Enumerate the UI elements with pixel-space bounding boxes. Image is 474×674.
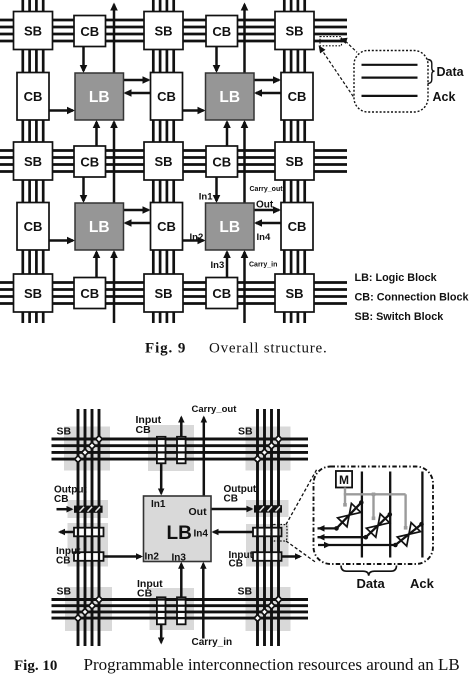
- wire In2 arrow into LB row4 col2: [49, 237, 75, 245]
- output CB hatched bar right: [254, 505, 282, 512]
- connection box ladder bottom-left (to lower LB In1): [157, 597, 166, 624]
- svg-text:SB: SB: [24, 23, 42, 38]
- wire In2 arrow from left input CB into LB: [104, 553, 144, 560]
- svg-text:LB: LB: [167, 523, 192, 544]
- wire data line 2 in fig9 inset: [362, 76, 418, 78]
- switch point diamonds top-right SB: [253, 434, 283, 463]
- svg-text:Carry_in: Carry_in: [192, 637, 233, 648]
- shade left input CB region: [68, 523, 109, 567]
- svg-text:CB: CB: [80, 286, 99, 301]
- svg-text:CB: CB: [224, 494, 238, 505]
- svg-text:CB: CB: [137, 588, 153, 600]
- logic block LB row2 col4: [206, 73, 255, 120]
- wire carry chain column 4 middle segment: [241, 120, 249, 203]
- wire Carry_in arrow into LB bottom: [200, 562, 207, 639]
- pass transistor switch 1 (inset): [338, 503, 361, 526]
- wire In4 arrow into LB row2 col2: [124, 89, 151, 97]
- svg-text:Fig. 9: Fig. 9: [145, 341, 186, 357]
- pass transistor switch 3 (inset): [397, 523, 420, 546]
- connection block CB row1 col4: [206, 16, 238, 47]
- shade bottom-right SB region: [246, 587, 291, 631]
- svg-text:SB: SB: [154, 154, 172, 169]
- svg-text:LB: LB: [219, 89, 240, 106]
- shade right output CB region: [246, 500, 289, 517]
- wire vertical data line 2 (inset): [389, 472, 391, 558]
- svg-text:CB: CB: [24, 219, 43, 234]
- wire In1 arrow into LB row2 col4: [213, 47, 221, 74]
- label Input CB top: [136, 414, 162, 436]
- switch block SB row1 col3: [275, 12, 314, 50]
- svg-text:Carry_out: Carry_out: [192, 404, 238, 415]
- connection block CB row2 col5: [281, 73, 313, 121]
- wire carry chain column 4 top segment with up arrow: [241, 3, 249, 74]
- wire horizontal routing bus row 3: [0, 283, 347, 304]
- switch point diamonds top-left SB: [73, 434, 103, 463]
- wire input 3 with right arrow (inset): [318, 522, 424, 548]
- wire vertical ack line (inset): [421, 472, 423, 558]
- svg-text:CB: CB: [229, 559, 243, 570]
- connection box ladder left (In2 source): [74, 552, 104, 561]
- connection block CB row4 col5: [281, 203, 313, 251]
- svg-text:SB: SB: [154, 286, 172, 301]
- wire carry chain column 2 top segment with up arrow: [110, 3, 118, 74]
- wire In3 arrow into LB row2 col2: [93, 120, 101, 146]
- wire carry chain column 2 bottom segment: [110, 250, 118, 323]
- wire right vertical bus (fig10): [258, 409, 279, 646]
- connection block CB row3 col2: [74, 146, 106, 177]
- svg-text:In1: In1: [199, 192, 213, 203]
- wire In4 arrow into LB row4 col4: [254, 219, 281, 227]
- label Output CB right: [224, 484, 257, 505]
- wire In1 arrow into LB row2 col2: [80, 47, 88, 74]
- memory cell box M: [336, 471, 352, 488]
- switch block SB row2 col3: [275, 142, 314, 180]
- label Input CB right: [229, 550, 254, 570]
- callout dotted rectangle on bus wires: [320, 37, 342, 46]
- wire vertical routing bus column 1: [23, 0, 43, 323]
- connection block CB row3 col4: [206, 146, 238, 177]
- inset rounded box (fig9 wire detail): [354, 51, 428, 113]
- svg-text:CB: CB: [56, 556, 70, 567]
- switch block SB row3 col3: [275, 274, 314, 312]
- svg-text:In1: In1: [151, 499, 166, 510]
- svg-text:SB: SB: [24, 286, 42, 301]
- switch block SB row1 col1: [14, 12, 53, 50]
- caption Fig. 10 Programmable interconnection resources around an LB: [14, 655, 460, 674]
- wire carry chain column 4 bottom segment: [241, 250, 249, 323]
- svg-text:SB: SB: [238, 426, 253, 438]
- wire arrow down from bottom input CB to lower LB: [158, 624, 165, 644]
- svg-text:Ack: Ack: [433, 90, 456, 104]
- logic block LB row4 col2: [75, 203, 124, 250]
- connection block CB row4 col3: [151, 203, 183, 251]
- wire In3 arrow from bottom input CB into LB: [178, 562, 185, 598]
- wire horizontal routing bus row 2: [0, 151, 347, 172]
- label Input CB left: [56, 546, 81, 567]
- callout dashed leader line lower with arrowhead: [319, 45, 361, 108]
- shade top input CB region: [148, 425, 194, 471]
- switch block SB row2 col2: [144, 142, 183, 180]
- svg-text:CB: CB: [24, 89, 43, 104]
- switch block SB row3 col1: [14, 274, 53, 312]
- svg-text:In3: In3: [211, 260, 225, 271]
- svg-text:LB: LB: [219, 219, 240, 236]
- wire In2 arrow into LB row4 col4: [183, 237, 206, 245]
- shade bottom input CB region: [150, 588, 195, 630]
- switch point diamonds bottom-right SB: [253, 595, 283, 623]
- wire top horizontal bus (fig10): [52, 439, 309, 459]
- connection block CB row5 col4: [206, 278, 238, 309]
- callout dotted rect on right input CB: [271, 525, 287, 542]
- svg-text:Overall structure.: Overall structure.: [209, 341, 327, 357]
- shade left output CB region: [68, 500, 109, 518]
- callout dashed leader upper (fig10): [286, 469, 317, 525]
- wire arrow into left output CB: [57, 506, 74, 513]
- switch point diamonds bottom-left SB: [73, 595, 103, 623]
- connection block CB row2 col1: [17, 73, 49, 121]
- svg-text:Data: Data: [357, 576, 386, 591]
- svg-text:SB: SB: [57, 586, 72, 598]
- wire vertical data line 1 (inset): [361, 472, 363, 558]
- wire In1 arrow from top input CB into LB: [158, 463, 165, 495]
- wire In4 arrow from right input CB into LB: [212, 529, 254, 535]
- svg-text:CB: CB: [288, 219, 307, 234]
- wire In1 arrow into LB row4 col2: [80, 177, 88, 203]
- svg-text:Carry_out: Carry_out: [250, 186, 284, 193]
- wire arrow from right input CB to right neighbour: [282, 553, 303, 560]
- svg-text:CB: CB: [212, 154, 231, 169]
- connection block CB row1 col2: [74, 16, 106, 47]
- connection box ladder right (to right LB In2): [253, 552, 282, 561]
- wire In2 arrow into LB row2 col4: [183, 107, 206, 115]
- wire Carry_out arrow from LB top: [201, 416, 208, 497]
- svg-text:Out: Out: [189, 506, 208, 518]
- wire carry chain column 2 middle segment: [110, 120, 118, 203]
- wire gray control net from M: [343, 488, 407, 530]
- svg-text:SB: SB: [285, 286, 303, 301]
- svg-text:Carry_in: Carry_in: [249, 262, 277, 269]
- svg-text:SB: SB: [285, 154, 303, 169]
- callout dashed leader lower (fig10): [286, 541, 316, 563]
- wire arrow from left input CB to left neighbour In4: [58, 529, 74, 535]
- connection box ladder top-right (to upper LB In3): [177, 437, 186, 464]
- svg-text:Fig. 10: Fig. 10: [14, 658, 57, 674]
- svg-text:SB: SB: [238, 586, 253, 598]
- inset rounded box (switch detail): [314, 467, 434, 565]
- svg-text:In4: In4: [194, 529, 209, 540]
- connection block CB row4 col1: [17, 203, 49, 251]
- svg-text:CB: CB: [80, 154, 99, 169]
- connection box ladder bottom-right (In3 source): [177, 597, 186, 624]
- wire In4 arrow into LB row4 col2: [124, 219, 151, 227]
- svg-text:CB: CB: [157, 89, 176, 104]
- wire arrow up from top input CB to upper LB: [178, 416, 185, 437]
- svg-text:SB: SB: [24, 154, 42, 169]
- wire horizontal routing bus row 1: [0, 20, 347, 41]
- svg-text:LB: Logic Block: LB: Logic Block: [355, 272, 438, 284]
- wire vertical routing bus column 3: [284, 0, 304, 323]
- svg-text:CB: CB: [54, 494, 68, 505]
- svg-text:Out: Out: [256, 200, 274, 211]
- svg-text:In3: In3: [172, 553, 187, 564]
- wire ack line in fig9 inset: [362, 95, 418, 97]
- switch block SB row3 col2: [144, 274, 183, 312]
- svg-text:CB: CB: [288, 89, 307, 104]
- shade top-right SB region: [246, 427, 291, 471]
- output CB hatched bar left: [74, 506, 103, 513]
- shade right input CB region: [246, 524, 289, 567]
- brace for Data lines (inset): [341, 566, 397, 576]
- caption Fig. 9 Overall structure: [145, 341, 327, 357]
- shade top-left SB region: [64, 427, 110, 471]
- wire In3 arrow into LB row4 col2: [93, 250, 101, 278]
- wire left vertical bus (fig10): [78, 409, 99, 646]
- connection block CB row2 col3: [151, 73, 183, 121]
- svg-text:Ack: Ack: [410, 576, 435, 591]
- svg-text:Data: Data: [437, 65, 465, 79]
- wire vertical routing bus column 2: [153, 0, 173, 323]
- svg-text:In2: In2: [190, 232, 204, 243]
- wire bottom horizontal bus (fig10): [52, 600, 309, 619]
- wire output 1 with left arrow (inset): [318, 500, 364, 531]
- svg-text:CB: CB: [157, 219, 176, 234]
- wire Out arrow from LB row4 col2: [124, 206, 151, 214]
- logic block LB row4 col4: [206, 203, 255, 250]
- svg-text:SB: SB: [154, 23, 172, 38]
- shade bottom-left SB region: [65, 587, 112, 631]
- wire Out arrow from LB row2 col2: [124, 76, 151, 84]
- switch block SB row2 col1: [14, 142, 53, 180]
- callout dashed leader line upper with arrowhead: [340, 38, 358, 53]
- connection box ladder right (In4 source): [253, 528, 282, 537]
- wire Out arrow from LB row2 col4: [254, 76, 281, 84]
- switch block SB row1 col2: [144, 12, 183, 50]
- brace for Data wires: [428, 60, 435, 84]
- wire In1 arrow into LB row4 col4: [213, 177, 221, 203]
- svg-text:CB: CB: [212, 286, 231, 301]
- connection block CB row5 col2: [74, 278, 106, 309]
- pass transistor switch 2 (inset): [366, 514, 389, 537]
- wire output 2 with left arrow (inset): [318, 512, 393, 540]
- svg-text:SB: Switch Block: SB: Switch Block: [355, 311, 445, 323]
- svg-text:In4: In4: [257, 232, 271, 243]
- logic block LB row2 col2: [75, 73, 124, 120]
- wire Out arrow from LB row4 col4: [254, 206, 281, 214]
- wire In3 arrow into LB row4 col4: [223, 250, 231, 278]
- svg-text:LB: LB: [89, 89, 110, 106]
- svg-text:Programmable interconnection r: Programmable interconnection resources a…: [84, 655, 460, 674]
- wire data line 1 in fig9 inset: [362, 64, 418, 66]
- svg-text:LB: LB: [89, 219, 110, 236]
- svg-text:M: M: [339, 473, 349, 487]
- svg-text:SB: SB: [285, 23, 303, 38]
- label Output CB left: [54, 485, 87, 506]
- svg-text:CB: Connection Block: CB: Connection Block: [355, 292, 470, 304]
- connection box ladder top-left (In1 source): [157, 437, 166, 464]
- wire Out arrow from LB to right output CB: [211, 506, 254, 512]
- wire In3 arrow into LB row2 col4: [223, 120, 231, 146]
- svg-text:CB: CB: [136, 424, 152, 436]
- wire In2 arrow into LB row2 col2: [49, 107, 75, 115]
- connection box ladder left (to left LB In4): [74, 528, 104, 537]
- wire In4 arrow into LB row2 col4: [254, 89, 281, 97]
- svg-text:CB: CB: [80, 24, 99, 39]
- svg-text:SB: SB: [57, 426, 72, 438]
- logic block LB (fig10): [144, 496, 212, 564]
- label Input CB bottom: [137, 578, 163, 600]
- svg-text:In2: In2: [145, 552, 160, 563]
- svg-text:CB: CB: [212, 24, 231, 39]
